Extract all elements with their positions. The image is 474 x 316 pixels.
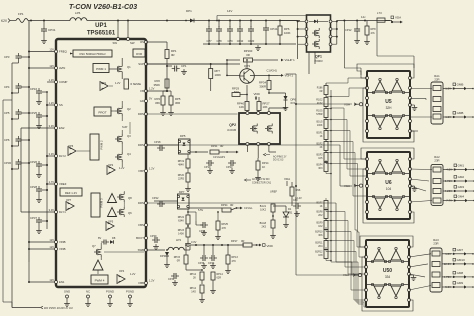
- wire EN2: [21, 127, 55, 129]
- capacitor CP19: [204, 158, 214, 174]
- connector VDA out: [391, 16, 403, 24]
- svg-text:Q1: Q1: [127, 65, 131, 69]
- svg-text:BOOT: BOOT: [136, 236, 144, 240]
- svg-text:CP5: CP5: [4, 111, 10, 115]
- wire fb1: [96, 89, 146, 91]
- capacitor CP16: [30, 87, 48, 105]
- block PWM1: [93, 64, 109, 73]
- svg-text:12.3V: 12.3V: [444, 262, 451, 266]
- op-amp OP2: [107, 163, 146, 175]
- svg-text:U50: U50: [383, 268, 392, 274]
- wire COMP: [47, 82, 55, 92]
- capacitor CP34: [168, 270, 179, 286]
- inductor LP6: [70, 11, 87, 21]
- pin SW1: [112, 21, 119, 46]
- diode DP6 6V1: [268, 92, 296, 110]
- svg-text:14v: 14v: [361, 15, 366, 19]
- wire SUP net: [146, 63, 240, 65]
- svg-text:140K: 140K: [178, 233, 184, 236]
- pin FBB y283: [139, 279, 155, 286]
- diode DP1: [185, 9, 194, 23]
- driver IC U50: [365, 240, 411, 307]
- svg-text:OS: OS: [140, 40, 144, 44]
- svg-text:2K5: 2K5: [262, 226, 267, 229]
- wire feeders: [326, 78, 367, 307]
- capacitor CP41: [263, 21, 278, 45]
- svg-text:0R: 0R: [220, 144, 223, 148]
- pin VINB: [49, 245, 65, 251]
- svg-text:36K: 36K: [155, 101, 160, 105]
- wire far left return: [3, 100, 12, 308]
- svg-text:23R: 23R: [434, 159, 439, 163]
- fuse FP1: [16, 12, 28, 23]
- resistor RP23 140K: [146, 224, 191, 247]
- svg-text:0R: 0R: [171, 53, 175, 57]
- connector K2V input: [1, 19, 16, 24]
- wire u50 loop: [360, 236, 413, 311]
- capacitor CP10: [237, 21, 244, 45]
- svg-text:U5: U5: [385, 99, 392, 105]
- connector GM7: [442, 248, 474, 256]
- svg-text:C1VGHP1: C1VGHP1: [213, 155, 226, 159]
- resistor RP21 0R: [210, 144, 239, 159]
- svg-text:GM3: GM3: [458, 185, 465, 189]
- svg-text:1K: 1K: [262, 165, 265, 169]
- capacitor CP5: [4, 109, 30, 119]
- svg-text:1.7V: 1.7V: [49, 180, 55, 184]
- capacitor CP1: [167, 64, 187, 75]
- svg-text:1K: 1K: [320, 135, 323, 138]
- diode pack DP5: [178, 134, 190, 154]
- resistor RP8 47k: [364, 21, 376, 45]
- connector VGH U50: [343, 273, 362, 277]
- wire DLY2: [46, 155, 55, 157]
- capacitor CP20: [248, 21, 255, 45]
- svg-text:1.2V: 1.2V: [445, 115, 451, 119]
- svg-text:1.2V: 1.2V: [49, 101, 55, 105]
- op-amp OP6: [56, 144, 90, 156]
- wire vref bus: [46, 92, 48, 229]
- block REF 1.2V: [56, 184, 82, 196]
- capacitor CP7: [206, 21, 212, 45]
- svg-text:12V: 12V: [49, 238, 54, 242]
- svg-text:UREF: UREF: [270, 190, 277, 194]
- svg-text:2K: 2K: [193, 277, 196, 280]
- capacitor CP3: [4, 53, 30, 63]
- svg-text:RP34: RP34: [221, 203, 228, 207]
- pin DRN y203: [138, 201, 148, 205]
- capacitor CP36: [198, 245, 208, 269]
- svg-text:CP31: CP31: [48, 28, 56, 32]
- svg-text:SUP: SUP: [122, 125, 128, 129]
- pin GD y101: [140, 97, 153, 104]
- node VDD: [254, 92, 261, 100]
- svg-text:GM10: GM10: [457, 258, 466, 262]
- svg-text:VDA: VDA: [284, 177, 290, 181]
- pin SS: [49, 101, 63, 107]
- svg-text:RP8: RP8: [371, 27, 377, 31]
- svg-text:3.3V: 3.3V: [49, 152, 55, 156]
- title T-CON V260-B1-C03: [69, 2, 137, 11]
- svg-text:T-CON V260-B1-C03: T-CON V260-B1-C03: [69, 2, 137, 11]
- svg-text:104: 104: [386, 187, 392, 191]
- svg-text:OSC 500KHz/750KHz: OSC 500KHz/750KHz: [79, 52, 106, 56]
- capacitor CP23: [226, 160, 236, 174]
- svg-text:VGHP 1: VGHP 1: [285, 58, 296, 62]
- svg-text:SWB: SWB: [138, 248, 145, 252]
- svg-text:CP3: CP3: [4, 55, 10, 59]
- node VGHP1: [262, 58, 295, 73]
- resistor RP19 484K: [178, 154, 190, 168]
- svg-text:1.2V: 1.2V: [445, 87, 451, 91]
- block OVR: [133, 49, 145, 57]
- svg-text:CP26: CP26: [30, 160, 37, 164]
- svg-text:DO IC U3: DO IC U3: [273, 159, 284, 162]
- wire freq to osc: [56, 52, 73, 55]
- wire cap ground bus: [203, 43, 296, 51]
- pin AVIN: [49, 64, 65, 70]
- capacitor CP12: [345, 21, 360, 44]
- svg-text:4.2V: 4.2V: [446, 168, 452, 172]
- capacitor CP8: [216, 21, 222, 45]
- svg-text:OP7: OP7: [66, 198, 72, 202]
- svg-text:CP12: CP12: [345, 28, 352, 32]
- svg-text:14V: 14V: [227, 9, 232, 13]
- capacitor CP26: [30, 160, 48, 178]
- svg-text:3.3V: 3.3V: [191, 240, 197, 244]
- svg-text:FB: FB: [140, 89, 144, 93]
- resistor R96 47R: [270, 182, 302, 206]
- svg-text:tCOUB: tCOUB: [227, 128, 236, 132]
- svg-text:PGND: PGND: [106, 290, 114, 294]
- connector GM2: [443, 175, 474, 183]
- pin FBN y225: [138, 223, 147, 227]
- wire fb net: [146, 90, 167, 92]
- svg-text:7.7V: 7.7V: [446, 199, 452, 203]
- connector GM1: [443, 164, 474, 172]
- wire sup2: [122, 122, 130, 134]
- node VDA mid: [284, 177, 290, 186]
- svg-text:VGH: VGH: [344, 103, 350, 107]
- svg-text:300R: 300R: [259, 85, 266, 89]
- svg-text:5.5V: 5.5V: [198, 209, 203, 212]
- wire q7 swb: [104, 249, 146, 252]
- svg-text:1.2V: 1.2V: [149, 279, 155, 283]
- svg-text:GM8: GM8: [457, 271, 464, 275]
- svg-text:10K: 10K: [239, 105, 244, 109]
- resistor RP22 634K: [178, 209, 196, 224]
- capacitor CP21: [196, 221, 208, 236]
- svg-text:1.2V: 1.2V: [119, 166, 125, 170]
- svg-text:DLY2: DLY2: [59, 154, 66, 158]
- buffer tri1: [93, 260, 103, 274]
- wire qp1 left pins: [280, 20, 305, 44]
- driver IC U6: [366, 152, 412, 219]
- pin FREQ: [49, 47, 67, 53]
- resistor network RA3 23R: [430, 238, 442, 292]
- pin DLY2: [49, 152, 67, 158]
- svg-text:Q2: Q2: [127, 107, 131, 111]
- connector GM9: [442, 281, 474, 289]
- svg-text:VDD: VDD: [254, 92, 261, 96]
- op-amp OP5: [106, 220, 146, 231]
- pin VINB: [49, 238, 65, 244]
- wire VINB1: [28, 241, 55, 243]
- svg-text:Q3: Q3: [127, 134, 131, 138]
- svg-text:CP10: CP10: [237, 39, 244, 43]
- wire qp1 feed: [216, 16, 306, 22]
- svg-text:Q8: Q8: [128, 196, 132, 200]
- svg-text:PWM 1: PWM 1: [96, 67, 106, 71]
- svg-text:C1VGH1: C1VGH1: [267, 69, 278, 73]
- transistor pack QP2: [227, 112, 280, 146]
- svg-text:Q4: Q4: [127, 152, 131, 156]
- resistor RP7 100K: [209, 64, 221, 91]
- svg-text:REF 1.2V: REF 1.2V: [65, 191, 77, 195]
- svg-text:STBR: STBR: [316, 113, 323, 116]
- svg-text:100K: 100K: [284, 31, 291, 35]
- connector GM4: [443, 195, 474, 203]
- svg-text:10K2: 10K2: [260, 209, 266, 212]
- svg-text:36R: 36R: [175, 101, 180, 105]
- svg-text:4.23V: 4.23V: [445, 189, 452, 193]
- svg-text:0R: 0R: [241, 239, 244, 243]
- resistor B1G8 2K5: [260, 220, 276, 239]
- capacitor CP33: [208, 245, 217, 269]
- svg-text:3.3V: 3.3V: [49, 208, 55, 212]
- diode DP3: [146, 248, 170, 268]
- svg-text:CP33: CP33: [208, 262, 215, 265]
- pin DLY1: [49, 208, 67, 214]
- svg-text:GM9: GM9: [457, 281, 464, 285]
- transistor Q4: [115, 144, 131, 167]
- svg-text:334: 334: [385, 275, 391, 279]
- wire u50 out: [409, 254, 431, 290]
- connector GMB1: [443, 83, 474, 91]
- resistor RP34 300R: [259, 75, 271, 93]
- svg-text:22R: 22R: [434, 78, 439, 82]
- connector VGH U6: [344, 184, 363, 188]
- svg-text:1.2V: 1.2V: [49, 78, 55, 82]
- resistor network RA2 23R: [431, 155, 443, 205]
- svg-text:12V: 12V: [49, 278, 54, 282]
- svg-text:RP25: RP25: [222, 222, 229, 226]
- resistor RP190 0R: [146, 49, 262, 76]
- wire qp1 right pins: [332, 20, 338, 44]
- svg-text:12V: 12V: [49, 64, 54, 68]
- svg-text:GD: GD: [140, 99, 144, 103]
- svg-text:D1: D1: [288, 207, 292, 211]
- resistor RP12b: [190, 285, 205, 303]
- svg-text:SW: SW: [112, 41, 117, 45]
- svg-text:62R: 62R: [217, 277, 222, 280]
- svg-text:EN2: EN2: [59, 126, 65, 130]
- svg-text:3K3: 3K3: [318, 167, 323, 170]
- svg-text:3K6: 3K6: [318, 234, 323, 237]
- pin DRN y114: [138, 112, 148, 116]
- svg-text:2K2: 2K2: [318, 214, 323, 217]
- svg-text:CP22: CP22: [152, 196, 159, 200]
- wire EN1: [28, 281, 55, 283]
- capacitor CP18: [146, 140, 178, 151]
- inductor LP2: [146, 234, 244, 250]
- capacitor CP4: [4, 83, 30, 93]
- pin SUP y64: [138, 62, 147, 66]
- diode D8: [98, 236, 146, 245]
- resistor RP27 10K: [257, 97, 270, 114]
- resistor RP2 350K: [153, 79, 169, 92]
- pin NC ground: [85, 290, 91, 307]
- svg-text:100K: 100K: [215, 73, 222, 77]
- svg-text:VINB: VINB: [59, 247, 66, 251]
- connector GM8: [442, 271, 474, 279]
- transistor Q3: [115, 130, 131, 144]
- wire u5 out: [410, 89, 432, 132]
- capacitor CP37: [30, 216, 48, 234]
- svg-text:Q6: Q6: [128, 211, 132, 215]
- svg-text:350K: 350K: [153, 83, 160, 87]
- wire qp2 drains: [247, 146, 287, 162]
- svg-text:VDA: VDA: [395, 16, 401, 20]
- svg-text:DP1: DP1: [186, 9, 192, 13]
- svg-text:CONECTOR CN1: CONECTOR CN1: [252, 182, 272, 185]
- svg-text:1K2: 1K2: [318, 225, 323, 228]
- svg-text:GMB: GMB: [457, 111, 464, 115]
- svg-text:2K4: 2K4: [318, 245, 323, 248]
- svg-text:VINB: VINB: [59, 240, 66, 244]
- block PWM2: [90, 134, 104, 160]
- svg-text:22R5: 22R5: [178, 178, 185, 181]
- node pin19 note: [12, 294, 73, 310]
- svg-text:47k: 47k: [371, 31, 376, 35]
- svg-text:OVR: OVR: [136, 52, 142, 56]
- transistor Q6: [108, 204, 133, 217]
- wire vda rail: [337, 15, 392, 22]
- pin VREF: [49, 180, 67, 186]
- svg-text:CP7: CP7: [206, 39, 212, 43]
- svg-text:CP1: CP1: [181, 64, 187, 68]
- svg-text:PROT: PROT: [98, 111, 107, 115]
- svg-text:GM4: GM4: [458, 195, 465, 199]
- driver IC U5: [366, 71, 412, 138]
- pin PGND ground: [126, 290, 134, 307]
- wire qp1 outputs: [250, 44, 315, 74]
- wire VINB2: [28, 248, 55, 282]
- svg-text:8V: 8V: [98, 236, 101, 240]
- svg-text:4K32: 4K32: [317, 102, 323, 105]
- svg-text:PWM 2: PWM 2: [100, 140, 104, 150]
- op-amp U1 main IC UP1 TPS65161 outline: [56, 23, 146, 287]
- svg-text:PGND: PGND: [126, 290, 134, 294]
- svg-text:FBB: FBB: [139, 281, 145, 285]
- node VGH1: [250, 74, 293, 83]
- capacitor CP22: [146, 196, 178, 207]
- svg-text:CP16: CP16: [30, 87, 37, 91]
- resistor RP15 0R: [174, 244, 188, 270]
- svg-text:Q7: Q7: [92, 244, 96, 248]
- resistor RP13 47K: [225, 245, 238, 274]
- svg-text:3.3V: 3.3V: [49, 124, 55, 128]
- svg-text:5K6: 5K6: [234, 90, 239, 94]
- svg-text:FP1: FP1: [18, 12, 24, 16]
- wire u5 loop: [357, 64, 414, 142]
- svg-text:SW: SW: [130, 41, 135, 45]
- pin SW2: [127, 21, 135, 46]
- svg-text:U6: U6: [385, 180, 392, 186]
- svg-text:CP41: CP41: [270, 27, 278, 31]
- svg-text:RP21: RP21: [211, 144, 218, 148]
- svg-text:CP37: CP37: [30, 216, 37, 220]
- svg-text:DP5: DP5: [180, 134, 186, 138]
- transistor Q8: [108, 191, 147, 204]
- resistor RP5 36R: [163, 90, 181, 116]
- wire ground return left: [11, 63, 13, 295]
- resistor RP14 62R: [210, 272, 223, 294]
- svg-text:CP25: CP25: [30, 111, 37, 115]
- resistor RP20 22R5: [178, 168, 191, 192]
- block PWM4: [91, 275, 108, 284]
- transistor QP3: [240, 61, 255, 83]
- pin FB y91: [140, 87, 154, 94]
- svg-text:P2003: P2003: [314, 59, 323, 63]
- block PWM3: [91, 193, 104, 217]
- pin FBP y171: [139, 167, 155, 174]
- svg-text:CP39: CP39: [150, 234, 157, 238]
- svg-text:0R: 0R: [230, 203, 233, 207]
- capacitor CP31: [41, 21, 56, 44]
- pin OS y42: [140, 40, 148, 44]
- resistor R SENSE: [124, 79, 141, 89]
- svg-text:RP14: RP14: [262, 161, 269, 165]
- op-amp OP4: [117, 269, 146, 284]
- resistor RP40 10K: [237, 95, 249, 115]
- wire 14V rail: [28, 9, 300, 22]
- resistor RP25 47K: [188, 211, 229, 239]
- wire VREF: [46, 183, 55, 185]
- svg-text:CP18: CP18: [154, 140, 161, 144]
- svg-text:CP8: CP8: [216, 39, 222, 43]
- resistor RP6 100K: [278, 21, 291, 45]
- svg-text:C1VGL: C1VGL: [244, 206, 253, 210]
- wire FREQ: [28, 51, 55, 53]
- wire 12V bus: [28, 21, 30, 263]
- resistor RP4 36K: [155, 96, 166, 116]
- wire fbb div: [186, 269, 203, 272]
- pin GND ground: [64, 290, 70, 307]
- diode D1 431: [273, 206, 293, 228]
- svg-text:DRN: DRN: [138, 201, 144, 205]
- svg-text:5V: 5V: [149, 97, 152, 101]
- svg-text:CP20: CP20: [248, 39, 255, 43]
- diode pack DP7: [177, 190, 189, 209]
- svg-text:SS: SS: [59, 103, 63, 107]
- wire SS: [46, 92, 55, 106]
- svg-text:DLY1: DLY1: [59, 210, 66, 214]
- wire vghp1 a: [190, 151, 208, 153]
- resistor RP14 1K: [255, 158, 269, 181]
- pin EN1: [49, 278, 65, 284]
- node CN1 note: [244, 178, 271, 185]
- svg-text:FREQ: FREQ: [59, 50, 68, 54]
- pin SWB y250: [138, 248, 148, 252]
- connector GM10: [442, 258, 474, 266]
- transistor pack QP1 P2003: [305, 15, 332, 63]
- svg-text:TPS65161: TPS65161: [87, 31, 116, 37]
- resistor RP34 0R: [189, 203, 253, 212]
- capacitor CP9: [227, 21, 233, 45]
- svg-text:QP2: QP2: [229, 123, 236, 127]
- svg-text:GM2: GM2: [458, 175, 465, 179]
